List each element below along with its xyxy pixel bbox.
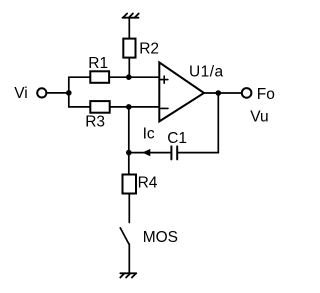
svg-text:R3: R3 [85,114,105,131]
wire input branch vertical [68,77,70,107]
wire to R1 [69,76,91,78]
wire op-amp output [204,92,242,94]
svg-text:R1: R1 [88,55,108,72]
wire R1 to node IN+ [109,76,129,78]
resistor R4 [123,175,137,194]
wire node C to R4 [128,153,130,175]
op-amp U1/a [159,62,204,121]
resistor R2 [123,39,135,58]
node IN- junction [126,104,132,110]
wire ground to R2 [128,18,130,39]
wire R2 to node IN+ [128,58,130,78]
terminal Vi [37,88,46,97]
svg-text:Fo: Fo [257,86,275,103]
wire R3 to node IN- [110,106,129,108]
wire feedback vertical [217,93,219,153]
svg-text:Vu: Vu [250,109,268,126]
wire node IN+ to op-amp [129,76,160,78]
node output junction [216,90,222,96]
svg-text:R2: R2 [139,40,159,57]
wire node IN- down to node C [128,107,130,153]
svg-text:Vi: Vi [14,85,28,102]
node C junction [126,150,132,156]
op-amp plus input marker [161,76,168,83]
svg-text:U1/a: U1/a [189,64,224,81]
node input junction [66,90,72,96]
capacitor C1 [171,146,177,159]
ground (top chassis) [123,14,139,18]
terminal Fo [242,88,252,98]
wire to R3 [69,106,91,108]
switch MOS blade [120,228,129,244]
op-amp minus input marker [161,107,168,109]
wire feedback horizontal to C1 [178,152,218,154]
resistor R1 [90,71,109,83]
wire C1 to node C [129,152,171,154]
svg-text:MOS: MOS [143,229,178,246]
ground (bottom chassis) [120,273,136,277]
svg-text:R4: R4 [138,175,158,192]
wire Vi to input node [46,92,68,94]
wire node IN- to op-amp [129,106,160,108]
wire R4 to switch [128,194,130,223]
svg-text:Ic: Ic [143,126,155,143]
resistor R3 [90,101,109,113]
svg-text:C1: C1 [167,130,187,147]
node IN+ junction [126,74,132,80]
current arrow Ic [142,149,150,156]
wire switch to ground [128,244,130,273]
